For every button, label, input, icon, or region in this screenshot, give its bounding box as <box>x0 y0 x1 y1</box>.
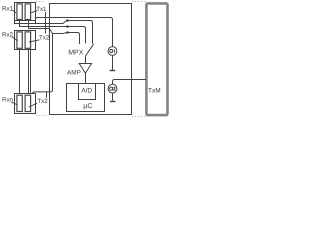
junction dot A <box>66 19 69 22</box>
main circuit box <box>50 4 132 115</box>
pair1 element Rx1 <box>17 4 22 20</box>
G2 ground <box>110 101 116 103</box>
wire G2 to TxM <box>113 80 147 85</box>
pair1 element Tx1 <box>25 4 31 20</box>
pair2 element Tx2 <box>25 32 31 48</box>
svg-text:AMP: AMP <box>67 69 81 76</box>
wire Tx1 net to G1 <box>36 18 113 47</box>
svg-text:MPX: MPX <box>68 49 84 56</box>
op-amp AMP triangle <box>79 64 91 74</box>
generator G2 <box>108 84 117 93</box>
leader Rx2 <box>12 37 18 41</box>
pair-n element Txn <box>25 95 31 111</box>
leader Rx1 <box>12 10 16 13</box>
G1 ground <box>110 70 116 72</box>
G1 ground wire <box>112 55 114 70</box>
svg-text:Tx1: Tx1 <box>36 6 47 13</box>
transducer pair 2 box <box>15 31 36 50</box>
leader drop to Txn label <box>46 92 48 98</box>
dashed connector top-left <box>36 1 44 3</box>
wire L_C to mux contact 1 <box>29 20 80 44</box>
generator G1 <box>108 47 117 56</box>
bus vertical rx <box>19 48 21 95</box>
leader Tx1 <box>31 11 37 13</box>
svg-text:TxM: TxM <box>148 87 161 94</box>
transducer pair n box <box>15 94 36 114</box>
leader Tx2 <box>29 40 40 42</box>
dashed connector bottom-right <box>132 116 146 118</box>
microcontroller box <box>67 84 105 112</box>
dashed connector top-right <box>132 1 146 3</box>
G2 ground wire <box>112 93 114 101</box>
MPX pivot stub <box>85 55 87 63</box>
pair2 element Rx2 <box>17 32 22 48</box>
transducer TxM <box>146 3 167 115</box>
junction dot C <box>66 31 69 34</box>
pair-n element Rxn <box>17 95 22 111</box>
wire AMP to A/D <box>85 73 87 84</box>
wire down to pair-n Tx <box>33 34 53 95</box>
svg-text:Tx2: Tx2 <box>39 35 50 42</box>
bus vertical right <box>30 50 32 94</box>
wire L_B to mux contact 2 <box>20 20 86 44</box>
transducer pair 1 box <box>15 3 36 21</box>
svg-text:µC: µC <box>83 103 92 110</box>
svg-text:Tx2: Tx2 <box>37 98 48 105</box>
MPX switch arm <box>86 44 94 56</box>
wire L_A to mux contact 3 <box>15 21 93 44</box>
A/D box <box>79 84 96 100</box>
bus vertical mid <box>28 48 30 93</box>
svg-text:Rx1: Rx1 <box>2 5 14 12</box>
leader Rxn <box>11 102 18 105</box>
leader Txn <box>29 103 37 107</box>
svg-text:A/D: A/D <box>81 88 92 95</box>
junction dot B <box>66 25 69 28</box>
dashed connector bottom-left <box>36 115 47 117</box>
label leader vertical Tx1 to Tx2 <box>45 12 47 34</box>
